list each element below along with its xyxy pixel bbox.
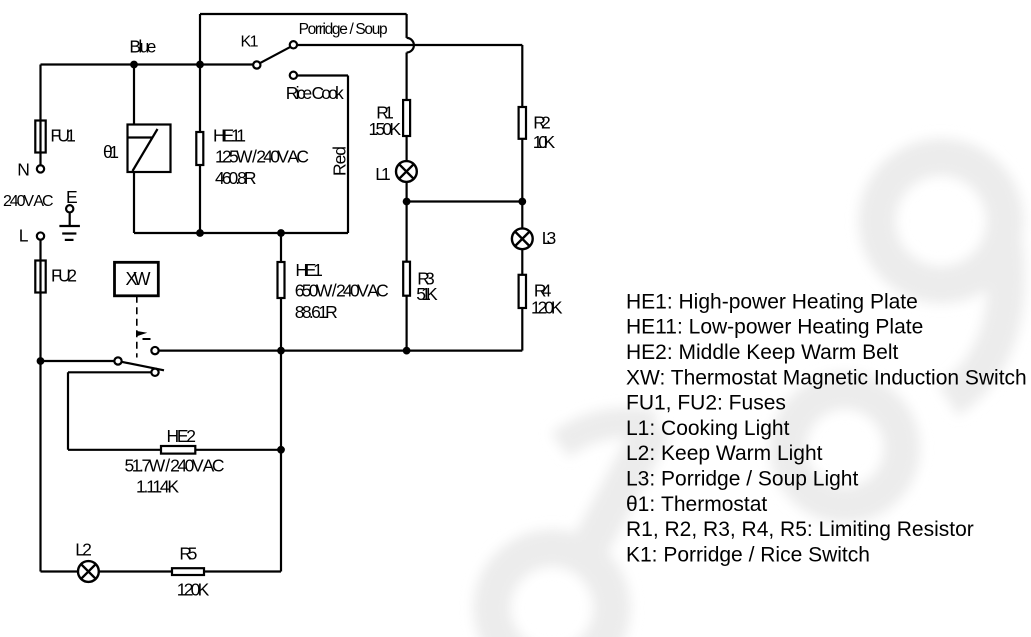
switch K1 rice contact: [290, 72, 297, 79]
svg-text:120K: 120K: [177, 579, 210, 599]
switch blade bottom: [122, 362, 165, 371]
svg-text:120K: 120K: [531, 297, 563, 317]
wire HE11 branch upper: [199, 65, 201, 133]
junction R3/switch line: [403, 347, 411, 355]
svg-text:L: L: [19, 225, 29, 245]
XW dashed link: [136, 296, 138, 358]
junction Blue/theta1: [130, 61, 138, 69]
terminal E: [66, 205, 73, 212]
svg-text:R2: R2: [533, 113, 551, 133]
svg-text:650W / 240V AC: 650W / 240V AC: [295, 281, 389, 301]
wire pivot line: [41, 360, 115, 362]
terminal L: [37, 232, 44, 239]
wire rice-cook branch vertical: [347, 76, 349, 234]
resistor HE2: [161, 446, 195, 454]
wire to HE2: [68, 449, 161, 451]
wire HE1 top: [280, 233, 282, 262]
relay box XW: [115, 262, 159, 296]
watermark: [492, 157, 1006, 637]
wire L1 to R3: [406, 182, 408, 262]
wire HE1 bottom and right rail: [280, 298, 282, 572]
svg-text:Red: Red: [330, 146, 350, 176]
svg-text:L3: Porridge / Soup Light: L3: Porridge / Soup Light: [626, 468, 858, 491]
fuse FU2: [35, 261, 45, 293]
resistor R4: [519, 275, 526, 308]
junction bottom/HE11: [196, 229, 204, 237]
lamp L1 cross: [399, 164, 414, 179]
junction left rail/pivot: [37, 357, 45, 365]
svg-text:L2: Keep Warm Light: L2: Keep Warm Light: [626, 442, 823, 465]
resistor HE11: [196, 132, 203, 165]
switch pivot contact: [114, 357, 121, 364]
wire theta1 to bottom line: [133, 172, 135, 233]
svg-text:K1: K1: [241, 34, 259, 51]
svg-text:HE2: Middle Keep Warm Belt: HE2: Middle Keep Warm Belt: [626, 341, 898, 364]
wire HE2 to right rail: [195, 449, 281, 451]
wire switch contact line: [159, 350, 523, 352]
switch keep-warm contact: [151, 369, 158, 376]
resistor R2: [519, 107, 526, 139]
wire HE11 branch lower: [199, 165, 201, 233]
svg-text:Blue: Blue: [129, 37, 156, 57]
svg-text:HE1: HE1: [295, 260, 323, 280]
wire top box right side down to hop: [406, 14, 408, 38]
svg-text:FU2: FU2: [51, 266, 77, 286]
lamp L3 cross: [515, 232, 530, 247]
wire R2 to L3: [521, 139, 523, 229]
wire R4 to bottom line: [521, 308, 523, 351]
svg-text:θ1: θ1: [103, 142, 119, 162]
wire L3 to R4: [521, 249, 523, 275]
ground bar 3: [65, 239, 74, 241]
thermostat box theta1: [128, 125, 171, 173]
junction HE1/switch line: [277, 347, 285, 355]
lamp L2: [78, 561, 99, 582]
wire bottom right to R5: [204, 570, 281, 572]
svg-text:K1: Porridge / Rice Switch: K1: Porridge / Rice Switch: [626, 543, 870, 566]
svg-text:XW: Thermostat Magnetic Induct: XW: Thermostat Magnetic Induction Switch: [626, 366, 1027, 389]
wire bottom left to L2: [41, 570, 79, 572]
svg-text:Rice Cook: Rice Cook: [286, 83, 344, 103]
svg-text:E: E: [66, 187, 78, 207]
wire earth stem: [69, 212, 71, 226]
lamp L3: [512, 228, 533, 249]
switch K1 pole contact: [253, 61, 260, 68]
svg-text:L1: Cooking Light: L1: Cooking Light: [626, 417, 790, 440]
lamp L1: [396, 161, 417, 182]
svg-text:L2: L2: [75, 539, 92, 559]
wire down to R2: [521, 45, 523, 107]
switch K1 blade: [261, 46, 292, 63]
wire L to FU2 and down left rail: [39, 240, 41, 572]
junction Blue/HE11: [196, 61, 204, 69]
wire left rail through FU1 to N: [39, 65, 41, 166]
svg-text:150K: 150K: [369, 119, 402, 139]
junction L1 lower: [403, 198, 411, 206]
switch K1 porridge contact: [290, 41, 297, 48]
junction bottom/HE1: [277, 229, 285, 237]
svg-text:51.7W / 240V AC: 51.7W / 240V AC: [125, 456, 225, 476]
lamp L2 cross: [81, 564, 96, 579]
wire R1 to L1: [406, 136, 408, 161]
svg-text:θ1: Thermostat: θ1: Thermostat: [626, 493, 767, 516]
wire rice-cook branch horizontal: [297, 74, 348, 76]
wire keep-warm down: [67, 372, 69, 450]
svg-text:XW: XW: [126, 269, 151, 289]
resistor HE1: [278, 262, 285, 298]
svg-text:HE11: HE11: [213, 125, 246, 145]
svg-text:R1, R2, R3, R4, R5: Limiting R: R1, R2, R3, R4, R5: Limiting Resistor: [626, 518, 974, 541]
junction HE2/right rail: [277, 446, 285, 454]
terminal N: [37, 165, 44, 172]
fuse FU1: [35, 121, 45, 153]
svg-text:HE11: Low-power Heating Plate: HE11: Low-power Heating Plate: [626, 316, 923, 339]
svg-text:240V AC: 240V AC: [3, 193, 54, 210]
wire top box left side: [199, 14, 201, 65]
svg-text:L1: L1: [375, 164, 391, 184]
theta1 inner diagonal: [133, 129, 158, 171]
svg-text:10K: 10K: [533, 132, 556, 152]
svg-text:HE1: High-power Heating Plate: HE1: High-power Heating Plate: [626, 290, 918, 313]
wire blue junction to theta1: [133, 65, 135, 125]
svg-text:460.8R: 460.8R: [215, 168, 257, 188]
svg-text:N: N: [17, 160, 30, 180]
wire R3 to bottom line: [406, 296, 408, 351]
wire Blue horizontal: [41, 63, 254, 65]
svg-text:1.114K: 1.114K: [136, 477, 179, 497]
wire hop over Porridge/Soup wire: [407, 38, 414, 53]
svg-text:125W / 240V AC: 125W / 240V AC: [215, 147, 309, 167]
svg-text:R5: R5: [179, 543, 197, 563]
svg-text:FU1, FU2: Fuses: FU1, FU2: Fuses: [626, 392, 786, 415]
svg-text:88.61R: 88.61R: [295, 302, 338, 322]
wire L2 to R5: [99, 570, 172, 572]
wire hop to R1: [406, 53, 408, 101]
switch XW contact: [151, 347, 158, 354]
svg-text:HE2: HE2: [167, 426, 197, 446]
ground bar 2: [62, 232, 76, 234]
theta1 inner horizontal: [128, 136, 153, 138]
junction R2/L3: [518, 198, 526, 206]
XW arrow flag: [137, 331, 148, 336]
resistor R3: [403, 262, 410, 296]
resistor R1: [403, 100, 410, 136]
ground bar 1: [59, 225, 80, 227]
resistor R5: [172, 568, 204, 575]
wire keep-warm contact left: [68, 371, 151, 373]
wire L1 junction cross line: [407, 200, 523, 202]
wire Porridge/Soup contact to right: [297, 44, 522, 46]
XW arrow dash: [143, 338, 151, 340]
wire inner bottom line: [134, 232, 348, 234]
svg-text:51K: 51K: [416, 284, 438, 304]
svg-text:L3: L3: [542, 228, 557, 248]
wire top box top: [200, 13, 407, 15]
svg-text:FU1: FU1: [50, 125, 76, 145]
svg-text:Porridge / Soup: Porridge / Soup: [299, 21, 388, 38]
